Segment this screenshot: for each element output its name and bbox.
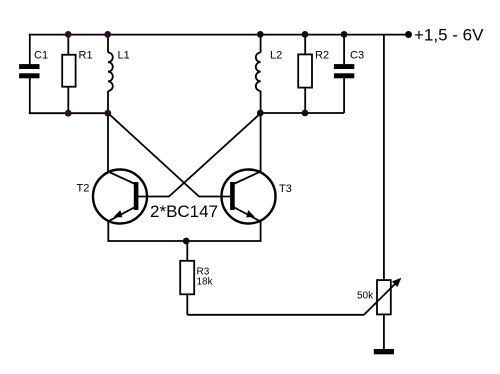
svg-text:T2: T2 — [77, 183, 90, 195]
svg-text:L2: L2 — [270, 50, 282, 62]
svg-text:C3: C3 — [350, 50, 364, 62]
svg-text:+1,5 - 6V: +1,5 - 6V — [414, 26, 484, 45]
svg-text:R1: R1 — [79, 50, 93, 62]
svg-text:R2: R2 — [315, 50, 329, 62]
svg-text:L1: L1 — [118, 50, 130, 62]
svg-text:2*BC147: 2*BC147 — [150, 202, 218, 221]
svg-text:18k: 18k — [197, 277, 214, 288]
svg-text:C1: C1 — [34, 50, 48, 62]
svg-text:T3: T3 — [279, 183, 292, 195]
svg-text:50k: 50k — [357, 291, 374, 302]
